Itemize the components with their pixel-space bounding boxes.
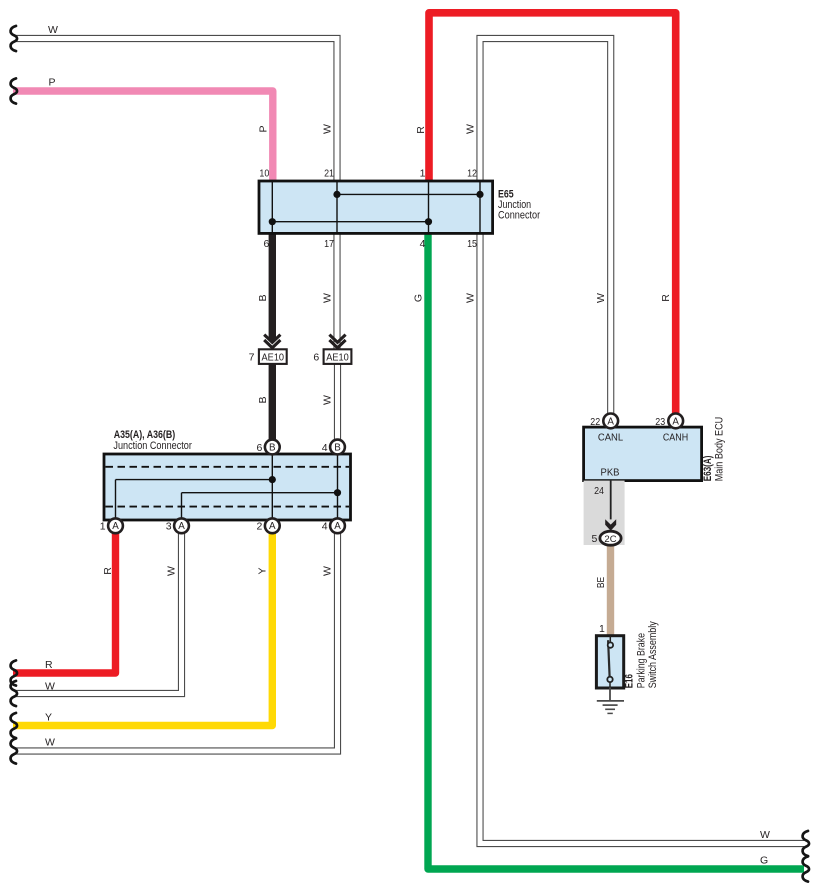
svg-text:W: W (45, 681, 55, 693)
E65 pin numbers (259, 168, 477, 251)
svg-text:A: A (672, 416, 679, 427)
junction dot pin12 bus (476, 191, 483, 198)
svg-text:A: A (178, 521, 185, 532)
svg-text:B: B (269, 442, 276, 453)
svg-text:23: 23 (655, 416, 665, 428)
wire W AE10 to A35 pin4B (334, 364, 341, 440)
svg-text:3: 3 (166, 521, 172, 533)
svg-text:R: R (45, 659, 53, 671)
connector AE10 (pin 6) (313, 349, 351, 364)
E63 pin 22A (590, 414, 618, 429)
svg-text:24: 24 (594, 485, 604, 497)
PKB pin 24 line (610, 481, 612, 520)
wire R red A35 pin1A to bottom left (13, 533, 116, 673)
svg-text:AE10: AE10 (326, 352, 349, 363)
wire break squiggle R bottom-left (11, 660, 17, 685)
PKB internal shield gray area (584, 481, 625, 545)
svg-text:A: A (269, 521, 276, 532)
svg-text:W: W (322, 395, 334, 405)
wire Y yellow A35 pin2A to bottom left (13, 533, 272, 725)
svg-text:Y: Y (45, 712, 52, 724)
wire R red E65 pin1 to E63 pin23 (429, 13, 676, 414)
svg-text:6: 6 (263, 238, 269, 250)
junction dot 4B/4A bus (334, 489, 341, 496)
wire W A35 pin4A to bottom left (13, 533, 338, 751)
svg-text:Y: Y (257, 567, 269, 574)
svg-text:R: R (415, 126, 427, 134)
A35 pin 4B (322, 440, 345, 455)
svg-text:W: W (595, 293, 607, 303)
wire B black AE10 to A35 pin6B (269, 364, 276, 440)
svg-text:W: W (465, 293, 477, 303)
svg-text:5: 5 (592, 533, 598, 545)
wire W E65 pin12 to E63 pin22 CANL (480, 39, 611, 414)
svg-text:6: 6 (313, 351, 319, 363)
svg-text:W: W (48, 24, 58, 36)
svg-text:Switch Assembly: Switch Assembly (647, 621, 659, 689)
svg-text:W: W (760, 829, 770, 841)
svg-text:21: 21 (324, 168, 334, 180)
svg-text:P: P (258, 125, 270, 132)
connector arrow into AE10 pin6 (329, 335, 345, 348)
junction dot pin10 bus (269, 218, 276, 225)
E16 label (624, 621, 659, 689)
wire break squiggle W1 bottom-left (11, 681, 17, 706)
junction dot pin21 bus (333, 191, 340, 198)
svg-text:4: 4 (420, 238, 426, 250)
svg-text:Junction Connector: Junction Connector (113, 440, 192, 452)
svg-text:4: 4 (322, 521, 328, 533)
svg-text:G: G (760, 855, 768, 867)
svg-text:W: W (322, 566, 334, 576)
svg-text:A: A (334, 521, 341, 532)
junction connector E65 (259, 181, 493, 233)
wire W A35 pin3A to bottom left (13, 533, 182, 693)
svg-text:2C: 2C (604, 534, 616, 545)
wire break squiggle G bottom-right (803, 856, 809, 881)
A35 pin 3A (166, 518, 189, 533)
svg-text:4: 4 (322, 442, 328, 454)
svg-text:CANH: CANH (663, 431, 688, 443)
wire B black E65 pin6 to AE10 (269, 233, 276, 341)
svg-text:P: P (49, 77, 56, 89)
svg-text:CANL: CANL (598, 431, 623, 443)
arrow into 2C (605, 519, 616, 531)
svg-text:12: 12 (467, 168, 477, 180)
A35 title (113, 429, 192, 452)
E65 internal bus 21/17 to 12/15 (337, 193, 480, 195)
wire W E65 pin15 to bottom right (480, 233, 804, 843)
junction dot 6B/2A bus (269, 476, 276, 483)
svg-text:B: B (257, 294, 269, 301)
svg-text:22: 22 (590, 416, 600, 428)
wire W E65 pin17 to AE10 (333, 233, 340, 349)
wire G green E65 pin4 to bottom right (428, 233, 804, 869)
svg-text:15: 15 (467, 238, 477, 250)
junction dot pin1 bus (425, 218, 432, 225)
connector 2C pin 5 (592, 531, 622, 545)
A35 internal pin lines (116, 454, 338, 520)
svg-text:E16: E16 (624, 674, 636, 688)
E63 pin 23A (655, 414, 683, 429)
svg-text:Parking Brake: Parking Brake (635, 633, 647, 688)
wire color labels rotated (102, 124, 672, 588)
wire break squiggle P (11, 78, 17, 103)
svg-text:7: 7 (249, 351, 255, 363)
svg-text:W: W (322, 293, 334, 303)
wire break squiggle W2 bottom-left (11, 738, 17, 763)
svg-text:E63(A): E63(A) (702, 456, 714, 482)
svg-text:W: W (322, 124, 334, 134)
E65 internal pin-through lines 10-6, 21-17, 1-4, 12-15 (272, 181, 480, 233)
svg-text:BE: BE (595, 577, 607, 588)
svg-text:2: 2 (257, 521, 263, 533)
svg-text:A: A (112, 521, 119, 532)
svg-text:Main Body ECU: Main Body ECU (713, 417, 725, 482)
wire break squiggle W bottom-right (803, 831, 809, 856)
wire BE beige 2C to E16 (607, 545, 614, 636)
wire break squiggle W top-left (11, 26, 17, 51)
svg-text:G: G (413, 294, 425, 302)
A35 internal bus 1A to 6B/2A (116, 479, 273, 481)
svg-text:R: R (102, 567, 114, 575)
E65 label (498, 189, 541, 222)
svg-text:17: 17 (324, 238, 334, 250)
A35 pin 2A (257, 518, 280, 533)
junction connector A35(A) A36(B) (104, 454, 351, 520)
A35 pin 1A (100, 518, 123, 533)
wire break squiggle Y bottom-left (11, 713, 17, 738)
wire P pink to E65 pin10 (13, 91, 273, 181)
E65 internal bus 10/6 to 1/4 (272, 221, 428, 223)
connector arrow into AE10 pin7 (264, 335, 280, 348)
svg-text:W: W (465, 124, 477, 134)
A35 internal bus 3A to 4B/4A (182, 492, 338, 494)
A35 dashed separator bottom (106, 506, 350, 508)
svg-text:PKB: PKB (601, 467, 620, 479)
A35 pin 4A (322, 518, 345, 533)
ECU E63(A) Main Body ECU (584, 427, 702, 481)
svg-text:B: B (257, 396, 269, 403)
A35 dashed separator top (106, 466, 350, 468)
svg-text:AE10: AE10 (262, 352, 285, 363)
svg-text:Connector: Connector (498, 210, 541, 222)
svg-text:A: A (607, 416, 614, 427)
svg-text:W: W (45, 737, 55, 749)
svg-text:R: R (660, 294, 672, 302)
wire W top-left into E65 pin21 (13, 39, 337, 182)
ground (597, 687, 624, 713)
svg-text:6: 6 (257, 442, 263, 454)
svg-text:1: 1 (599, 623, 605, 635)
svg-text:1: 1 (100, 521, 106, 533)
A35 pin 6B (257, 440, 280, 455)
E63 label (702, 417, 726, 482)
connector AE10 (pin 7) (249, 349, 287, 364)
svg-text:10: 10 (259, 168, 269, 180)
svg-text:1: 1 (420, 168, 426, 180)
svg-text:B: B (334, 442, 341, 453)
svg-text:W: W (166, 566, 178, 576)
